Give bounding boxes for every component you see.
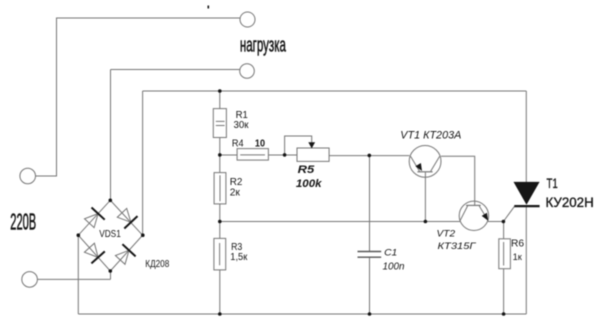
svg-text:1,5к: 1,5к: [230, 252, 248, 263]
svg-text:100k: 100k: [296, 178, 322, 190]
svg-text:VT1 КТ203А: VT1 КТ203А: [400, 129, 461, 141]
svg-text:КУ202Н: КУ202Н: [546, 194, 594, 210]
svg-text:10: 10: [255, 138, 265, 149]
svg-text:1к: 1к: [513, 252, 523, 263]
svg-text:220В: 220В: [10, 209, 36, 235]
svg-text:R6: R6: [511, 239, 525, 250]
svg-text:VT2: VT2: [437, 229, 456, 239]
svg-text:C1: C1: [384, 248, 397, 259]
svg-text:КТ315Г: КТ315Г: [438, 241, 477, 251]
svg-text:VDS1: VDS1: [99, 229, 121, 240]
svg-text:нагрузка: нагрузка: [240, 34, 287, 56]
svg-text:R5: R5: [298, 164, 315, 176]
svg-text:R4: R4: [232, 138, 244, 149]
svg-text:T1: T1: [547, 175, 558, 191]
svg-text:100n: 100n: [383, 261, 405, 272]
svg-text:2к: 2к: [230, 186, 241, 198]
svg-text:30к: 30к: [234, 119, 249, 131]
svg-text:КД208: КД208: [145, 259, 169, 270]
